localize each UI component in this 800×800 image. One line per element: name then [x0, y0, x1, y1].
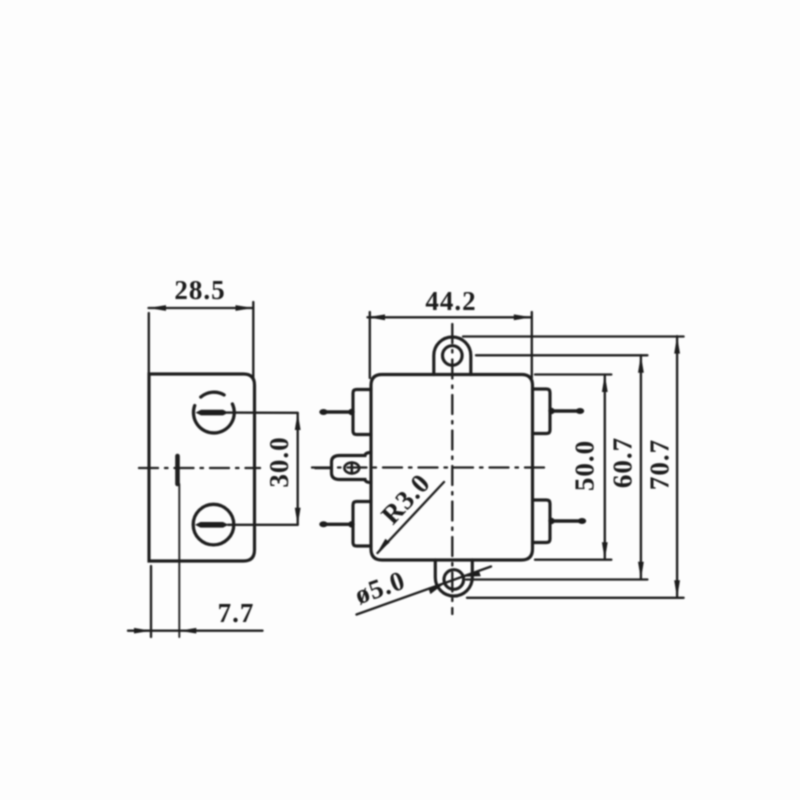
dimension 70.7: bottom arrowhead — [674, 580, 680, 598]
R3.0 arrowhead — [377, 539, 390, 554]
dimension 50.0: top extension line — [535, 373, 611, 375]
right view filter body outline — [371, 375, 533, 561]
dimension 28.5: right arrowhead — [236, 305, 254, 311]
bottom-right lead root blob — [548, 518, 554, 524]
top mounting ear — [434, 337, 471, 375]
top-right terminal lead — [551, 409, 581, 412]
dimension 7.7: dimension line — [128, 630, 263, 632]
dimension 60.7: dimension line — [640, 355, 642, 579]
dimension 60.7: bottom arrowhead — [638, 562, 644, 580]
dimension 30.0: top arrowhead — [295, 413, 301, 430]
svg-text:44.2: 44.2 — [425, 286, 476, 316]
svg-text:70.7: 70.7 — [645, 439, 675, 490]
dimension 28.5: left arrowhead — [149, 305, 167, 311]
dimension 28.5: left extension line — [148, 313, 150, 372]
top-left terminal lead — [322, 410, 352, 413]
dimension 44.2: right arrowhead — [514, 314, 532, 320]
dimension 50.0: top arrowhead — [602, 375, 608, 393]
lower hole screw slot — [195, 522, 229, 528]
bottom-right lead end blob — [578, 518, 586, 524]
lower slot extension line to 30.0 dimension — [228, 524, 298, 526]
bottom-left terminal tab — [353, 502, 371, 547]
right view vertical centerline — [451, 324, 453, 614]
top-left lead root blob — [348, 409, 354, 415]
dimension 7.7: left arrowhead (points right) — [134, 628, 151, 634]
upper hole screw slot — [196, 410, 229, 416]
dimension 60.7: bottom extension line (from ear hole center) — [466, 578, 647, 580]
top-right lead root blob — [548, 408, 554, 414]
right view horizontal centerline — [312, 466, 546, 468]
bottom ear hole — [444, 570, 464, 590]
dimension 60.7: top extension line (from ear hole center) — [476, 354, 647, 356]
svg-text:28.5: 28.5 — [174, 275, 225, 305]
svg-text:ø5.0: ø5.0 — [351, 565, 409, 610]
diameter 5.0 leader line — [357, 567, 492, 615]
lower mounting hole (slotted) — [193, 504, 234, 545]
bottom-right terminal lead — [551, 519, 583, 522]
svg-text:50.0: 50.0 — [570, 440, 600, 491]
faston hole slot — [350, 463, 353, 474]
dimension 44.2: left extension line — [369, 312, 371, 378]
svg-text:30.0: 30.0 — [264, 436, 294, 487]
diameter 5.0 upper-right arrowhead — [463, 571, 481, 577]
top-left terminal tab — [353, 390, 371, 435]
dimension 60.7: top arrowhead — [638, 355, 644, 373]
dimension 7.7: right extension line (hole plane) — [178, 484, 180, 637]
dimension 50.0: dimension line — [604, 375, 606, 560]
middle terminal lead — [316, 467, 332, 470]
R3.0 leader line — [378, 482, 445, 553]
dimension 28.5: right extension line — [252, 302, 254, 378]
dimension 7.7: right arrowhead (points left) — [179, 628, 196, 634]
dimension 44.2: dimension line — [368, 316, 532, 318]
dimension 50.0: bottom extension line — [535, 559, 611, 561]
dimension 70.7: dimension line — [676, 336, 678, 597]
upper mounting hole (slotted, open at upper-left) — [193, 404, 234, 433]
left view mounting plate outline — [149, 374, 255, 561]
left view hole-plane tick mark — [175, 456, 180, 484]
bottom-left lead end blob — [319, 521, 327, 527]
middle ground faston terminal — [332, 453, 372, 483]
top-right terminal tab — [533, 389, 551, 434]
svg-text:7.7: 7.7 — [218, 598, 255, 628]
top-right lead end blob — [576, 408, 584, 414]
top ear hole — [443, 346, 463, 366]
dimension 44.2: right extension line — [531, 312, 533, 378]
bottom mounting ear — [435, 560, 472, 596]
dimension 7.7: left extension line — [150, 566, 152, 637]
dimension 28.5: dimension line — [149, 307, 254, 309]
dimension 30.0: bottom arrowhead — [295, 508, 301, 525]
left view horizontal centerline — [139, 467, 260, 469]
dimension 50.0: bottom arrowhead — [602, 542, 608, 560]
faston hole (oval) — [344, 463, 359, 474]
dimension 70.7: bottom extension line (from ear bottom) — [467, 597, 684, 599]
dimension 30.0: dimension line — [297, 413, 299, 525]
bottom-left lead root blob — [348, 521, 354, 527]
svg-text:60.7: 60.7 — [608, 437, 638, 488]
bottom-right terminal tab — [533, 500, 551, 543]
upper slot extension line to 30.0 dimension — [227, 411, 298, 414]
bottom-left terminal lead — [322, 523, 352, 526]
top-left lead end blob — [319, 409, 327, 415]
dimension 70.7: top arrowhead — [674, 336, 680, 354]
diameter 5.0 lower-left arrowhead — [429, 583, 445, 594]
dimension 44.2: left arrowhead — [368, 314, 386, 320]
dimension 70.7: top extension line (from ear top) — [463, 335, 684, 337]
